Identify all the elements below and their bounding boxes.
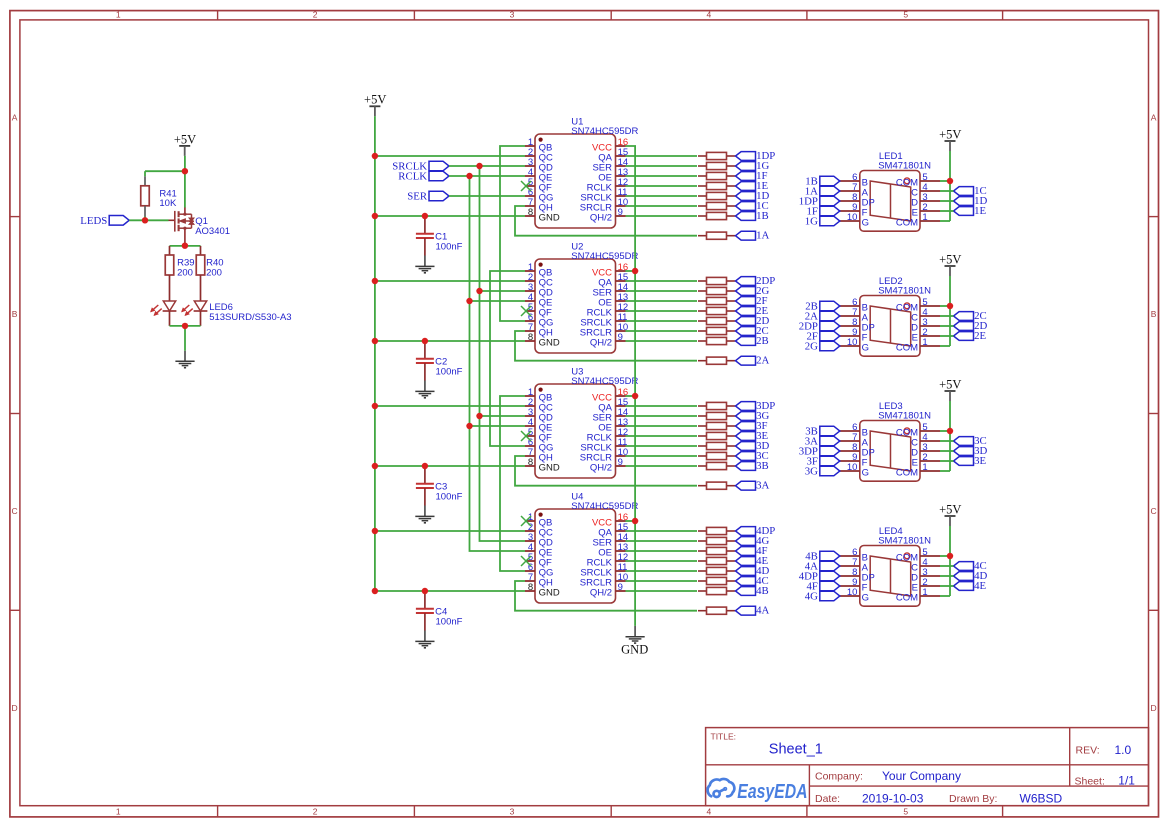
wire [470,425,526,427]
wire [626,146,636,626]
+5V power symbol (main rail) [364,93,386,117]
svg-text:8: 8 [528,582,533,593]
net flag 4F (display input) [806,581,839,593]
resistor (segment 2C) [698,327,735,334]
svg-text:W6BSD: W6BSD [1020,791,1063,805]
LED3 right pin names [896,427,918,478]
resistor (segment 4F) [698,547,735,554]
shift register U4 SN74HC595DR (symbol body) [535,509,616,603]
svg-text:A: A [12,112,18,122]
+5V power symbol (LED driver) [174,132,196,156]
junction [466,298,472,304]
LED1 right pin stubs (pins 5-1) [920,181,940,221]
wire [626,455,698,457]
wire [626,330,698,332]
net flag 3D [736,440,770,452]
net flag 4D (display output) [954,570,988,582]
wire [184,156,186,171]
wire [940,450,954,452]
net flag 2D [736,315,770,327]
svg-text:COM: COM [896,592,918,603]
LED1 right pin numbers 5-1 [922,172,927,223]
wire [184,171,186,207]
junction [182,323,188,329]
svg-text:REV:: REV: [1076,745,1100,757]
svg-text:SN74HC595DR: SN74HC595DR [571,376,638,387]
U4 left pin names [539,517,560,598]
junction [372,153,378,159]
svg-text:+5V: +5V [939,502,961,516]
svg-text:D: D [12,703,18,713]
junction [182,243,188,249]
svg-text:GND: GND [621,642,648,656]
U2 left pin numbers 1-8 [528,262,533,343]
svg-text:+5V: +5V [364,93,386,107]
svg-text:GND: GND [539,337,560,348]
net flag 1F (display input) [806,206,839,218]
svg-text:B: B [12,309,18,319]
U2 left pin stubs (pins 1-8) [525,271,535,341]
LED1 right pin names [896,177,918,228]
net flag 2A (display input) [805,311,840,323]
capacitor C4 [416,591,463,641]
wire [375,215,525,217]
svg-text:4G: 4G [805,591,818,603]
svg-text:5: 5 [903,806,908,816]
svg-text:1: 1 [116,806,121,816]
wire [375,155,525,157]
svg-text:1A: 1A [756,230,769,242]
U1 left pin stubs (pins 1-8) [525,146,535,216]
net flag 1D (display output) [954,195,988,207]
wire [470,300,526,302]
wire [626,175,698,177]
U1 right pin numbers 16-9 [618,137,629,218]
net flag 3G [736,410,770,422]
svg-text:D: D [1151,703,1157,713]
svg-text:SM471801N: SM471801N [878,161,931,172]
wire [949,526,951,596]
svg-text:1: 1 [922,337,927,348]
net flag 4C [736,575,769,587]
svg-text:3G: 3G [805,466,818,478]
junction [476,288,482,294]
svg-text:Sheet:: Sheet: [1075,775,1105,787]
U4 right pin stubs (pins 16-9) [616,521,626,591]
net flag 4G [736,535,770,547]
U2 right pin numbers 16-9 [618,262,629,343]
wire [626,530,698,532]
wire [626,205,698,207]
net flag 2A [736,355,770,367]
svg-text:10: 10 [847,337,858,348]
resistor (segment 4D) [698,567,735,574]
svg-text:10: 10 [847,212,858,223]
svg-text:1E: 1E [974,205,986,217]
no-connect X on U3 pin 5 (QF) [521,431,531,441]
wire [949,401,951,471]
wire [375,590,525,592]
net flag 1DP (display input) [799,196,840,208]
7-segment display LED1 SM471801N (symbol body) [860,171,920,232]
net flag 1E (display output) [954,205,987,217]
LED3 left pin stubs (pins 6-10) [840,431,860,471]
net flag 3D (display output) [954,445,988,457]
U1 left pin numbers 1-8 [528,137,533,218]
junction [372,338,378,344]
net flag 4E [736,555,769,567]
net flag 4G (display input) [805,591,840,603]
junction [422,463,428,469]
junction [372,528,378,534]
wire [449,195,525,197]
wire [626,300,698,302]
LED2 right pin numbers 5-1 [922,297,927,348]
junction [372,588,378,594]
shift register U1 SN74HC595DR (symbol body) [535,134,616,228]
junction [182,168,188,174]
net flag 4E (display output) [954,580,987,592]
wire [626,290,698,292]
svg-text:1.0: 1.0 [1115,743,1132,757]
U2 right pin names [580,267,613,348]
wire [449,175,525,177]
resistor (segment 3A) [698,482,735,489]
resistor (segment 4A) [698,607,735,614]
wire [626,215,698,217]
svg-text:C: C [1151,506,1157,516]
svg-text:EasyEDA: EasyEDA [737,780,807,802]
wire [375,280,525,282]
net flag 4D [736,565,770,577]
LED LED6 (element B) 513SURD/S530-A3 [182,275,292,326]
svg-text:1: 1 [922,587,927,598]
net flag 3DP (display input) [799,446,840,458]
wire [515,331,697,361]
7-segment display LED3 SM471801N (symbol body) [860,421,920,482]
wire [626,550,698,552]
svg-text:1G: 1G [805,216,818,228]
wire [940,190,954,192]
svg-text:SN74HC595DR: SN74HC595DR [571,126,638,137]
svg-text:COM: COM [896,342,918,353]
svg-text:B: B [1151,309,1157,319]
svg-text:G: G [862,217,869,228]
resistor (segment 2DP) [698,277,735,284]
svg-text:2: 2 [313,806,318,816]
junction [466,173,472,179]
svg-text:GND: GND [539,587,560,598]
net flag 2C [736,325,769,337]
LED LED6 (element A) [151,275,177,326]
wire [949,151,951,221]
wire (R40 top lead) [200,246,202,255]
wire [940,430,950,432]
junction [142,217,148,223]
wire [626,405,698,407]
+5V power symbol (LED3 COM) [939,377,961,401]
ground (LED driver) [175,361,194,367]
shift register U2 SN74HC595DR (symbol body) [535,259,616,353]
svg-text:SM471801N: SM471801N [878,411,931,422]
junction [947,303,953,309]
svg-text:TITLE:: TITLE: [711,732,737,742]
net flag 3G (display input) [805,466,840,478]
U3 left pin numbers 1-8 [528,387,533,468]
wire [940,315,954,317]
junction [372,403,378,409]
resistor R40 [196,255,223,278]
resistor (segment 3D) [698,442,735,449]
LED1 left pin names [862,177,875,228]
svg-text:2019-10-03: 2019-10-03 [862,791,924,805]
wire (+5V rail) [374,116,376,591]
wire [626,165,698,167]
svg-text:C: C [12,506,18,516]
U1 right pin stubs (pins 16-9) [616,146,626,216]
net flag LEDS [80,215,129,227]
net flag 4B (display input) [805,551,840,563]
svg-text:4E: 4E [974,580,986,592]
resistor (segment 3E) [698,432,735,439]
svg-text:G: G [862,592,869,603]
svg-text:5: 5 [903,10,908,20]
wire [940,200,954,202]
transistor Q1 (AO3401 P-MOSFET) [169,207,231,245]
resistor (segment 3B) [698,462,735,469]
resistor (segment 1A) [698,232,735,239]
svg-text:SM471801N: SM471801N [878,536,931,547]
resistor (segment 1C) [698,202,735,209]
svg-text:513SURD/S530-A3: 513SURD/S530-A3 [209,312,291,323]
net flag 1B (display input) [805,176,840,188]
wire [940,210,954,212]
svg-text:1/1: 1/1 [1118,774,1135,788]
svg-text:2A: 2A [756,355,769,367]
resistor (segment 3F) [698,422,735,429]
junction [422,213,428,219]
wire [940,470,950,472]
svg-text:4: 4 [707,10,712,20]
junction [476,413,482,419]
U4 right pin names [580,517,613,598]
wire [500,146,525,321]
net flag 3A [736,480,770,492]
svg-text:10: 10 [847,587,858,598]
resistor (segment 2D) [698,317,735,324]
net flag 1C (display output) [954,185,987,197]
svg-text:1: 1 [922,462,927,473]
resistor (segment 4B) [698,587,735,594]
U1 left pin names [539,142,560,223]
resistor (segment 4G) [698,537,735,544]
resistor (segment 3C) [698,452,735,459]
net flag 3E (display output) [954,455,987,467]
shift register U3 SN74HC595DR (symbol body) [535,384,616,478]
net flag 3C [736,450,769,462]
junction [947,178,953,184]
svg-text:2E: 2E [974,330,986,342]
svg-text:SM471801N: SM471801N [878,286,931,297]
junction [947,428,953,434]
resistor (segment 1B) [698,212,735,219]
LED4 left pin stubs (pins 6-10) [840,556,860,596]
wire [626,270,636,272]
resistor (segment 1DP) [698,152,735,159]
svg-text:1: 1 [116,10,121,20]
net flag 2G [736,285,770,297]
wire [940,575,954,577]
U2 left pin names [539,267,560,348]
no-connect X on U2 pin 5 (QF) [521,306,531,316]
svg-text:1: 1 [922,212,927,223]
net flag 2F (display input) [806,331,839,343]
resistor (segment 1E) [698,182,735,189]
wire [515,456,697,486]
+5V power symbol (LED2 COM) [939,252,961,276]
junction [372,278,378,284]
junction [632,393,638,399]
wire [626,185,698,187]
svg-text:3A: 3A [756,480,769,492]
net flag 3F (display input) [806,456,839,468]
net flag 1DP [736,150,776,162]
net flag 1G [736,160,770,172]
svg-text:Your Company: Your Company [882,769,961,783]
svg-text:4B: 4B [756,585,769,597]
svg-text:LEDS: LEDS [80,215,107,227]
wire [515,581,697,611]
LED4 left pin names [862,552,875,603]
wire [940,440,954,442]
wire [170,245,201,247]
net flag 3C (display output) [954,435,987,447]
svg-text:SER: SER [407,191,428,203]
LED2 right pin names [896,302,918,353]
svg-text:3B: 3B [756,460,769,472]
resistor (segment 4DP) [698,527,735,534]
wire (R39 top lead) [169,246,171,255]
no-connect X on U4 pin 1 (QB) [521,516,531,526]
ground (C1) [415,266,434,272]
svg-text:9: 9 [618,332,623,343]
resistor (segment 2B) [698,337,735,344]
svg-text:SN74HC595DR: SN74HC595DR [571,501,638,512]
junction [422,588,428,594]
svg-text:8: 8 [528,457,533,468]
svg-text:Drawn By:: Drawn By: [949,793,997,805]
wire [626,435,698,437]
LED4 right pin stubs (pins 5-1) [920,556,940,596]
svg-text:QH/2: QH/2 [590,462,612,473]
svg-text:10K: 10K [159,198,177,209]
wire [940,555,950,557]
svg-text:AO3401: AO3401 [195,226,230,237]
wire [626,425,698,427]
wire [375,340,525,342]
junction [476,163,482,169]
wire [449,165,525,167]
LED2 right pin stubs (pins 5-1) [920,306,940,346]
net flag 1E [736,180,769,192]
wire [375,530,525,532]
wire [626,570,698,572]
+5V power symbol (LED4 COM) [939,502,961,526]
svg-text:8: 8 [528,332,533,343]
net flag 4C (display output) [954,560,987,572]
U4 left pin stubs (pins 1-8) [525,521,535,591]
svg-text:G: G [862,342,869,353]
wire [480,290,526,292]
resistor (segment 1F) [698,172,735,179]
7-segment display LED4 SM471801N (symbol body) [860,546,920,607]
LED3 right pin stubs (pins 5-1) [920,431,940,471]
U3 right pin stubs (pins 16-9) [616,396,626,466]
svg-text:+5V: +5V [939,252,961,266]
wire [490,271,525,446]
svg-text:COM: COM [896,217,918,228]
resistor (segment 3DP) [698,402,735,409]
wire [940,585,954,587]
net flag 4B [736,585,769,597]
net flag 2B [736,335,769,347]
svg-text:GND: GND [539,212,560,223]
ground (C2) [415,391,434,397]
net flag 2B (display input) [805,301,840,313]
svg-text:4: 4 [707,806,712,816]
wire [940,305,950,307]
LED2 left pin names [862,302,875,353]
svg-text:A: A [1151,112,1157,122]
net flag 2G (display input) [805,341,840,353]
net flag 1F [736,170,768,182]
wire [940,180,950,182]
net flag 2E (display output) [954,330,987,342]
svg-text:100nF: 100nF [436,367,463,378]
U3 right pin numbers 16-9 [618,387,629,468]
net flag RCLK [398,171,449,183]
wire [940,460,954,462]
svg-text:+5V: +5V [939,377,961,391]
net flag 2D (display output) [954,320,988,332]
LED3 left pin numbers 6-10 [847,422,858,473]
wire (R41 top lead) [144,171,146,176]
wire [626,445,698,447]
net flag 4DP (display input) [799,571,840,583]
LED1 left pin numbers 6-10 [847,172,858,223]
wire [500,396,525,571]
svg-text:8: 8 [528,207,533,218]
svg-text:SN74HC595DR: SN74HC595DR [571,251,638,262]
svg-text:1B: 1B [756,210,769,222]
net flag 3E [736,430,769,442]
7-segment display LED2 SM471801N (symbol body) [860,296,920,357]
svg-text:Company:: Company: [815,771,863,783]
svg-text:2B: 2B [756,335,769,347]
net flag 1D [736,190,770,202]
LED3 right pin numbers 5-1 [922,422,927,473]
wire [626,155,698,157]
junction [372,463,378,469]
svg-text:9: 9 [618,582,623,593]
no-connect X on U1 pin 5 (QF) [521,181,531,191]
ground GND (main) [626,637,645,643]
resistor R39 [165,255,194,278]
capacitor C1 [416,216,463,266]
wire [480,415,526,417]
net flag 3DP [736,400,776,412]
net flag SER [407,191,449,203]
